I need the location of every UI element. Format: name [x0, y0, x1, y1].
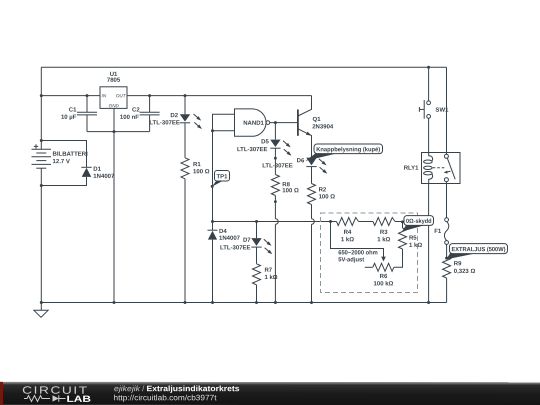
svg-text:0Ω-skydd: 0Ω-skydd [406, 219, 432, 225]
potentiometer R6 100k body [365, 266, 373, 268]
svg-text:R8: R8 [282, 182, 290, 188]
diode D2 LTL-307EE [184, 96, 186, 115]
svg-text:100 kΩ: 100 kΩ [374, 281, 394, 287]
wire R5 to R6 right end [394, 249, 403, 267]
diode D1 1N4007 [81, 166, 91, 168]
svg-text:100 Ω: 100 Ω [319, 194, 336, 200]
wire ground rail [41, 302, 446, 304]
svg-text:BILBATTERI: BILBATTERI [53, 152, 89, 158]
wire top +12V rail [41, 66, 446, 68]
svg-text:LAB: LAB [66, 394, 91, 404]
svg-text:1N4007: 1N4007 [219, 236, 241, 242]
transistor Q1 2N3904 [297, 110, 299, 136]
LED arrows D5 [283, 141, 287, 145]
wire relay contact to fuse [446, 182, 448, 218]
svg-text:100 Ω: 100 Ω [193, 169, 210, 175]
svg-text:OUT: OUT [116, 93, 127, 98]
svg-text:TP1: TP1 [217, 174, 229, 180]
wire R2 to ground with hop [311, 205, 313, 219]
svg-text:GND: GND [109, 103, 120, 108]
svg-text:IN: IN [102, 93, 107, 98]
wire fuse to R9 [446, 244, 448, 257]
relay RLY1 linkage dashed [433, 167, 446, 169]
diode D7 LTL-307EE [256, 222, 258, 239]
LED arrows D2 [194, 114, 198, 118]
switch SW1 [428, 67, 430, 101]
relay RLY1 contact [444, 154, 448, 158]
battery BILBATTERI plus sign [34, 145, 38, 147]
regulator U1 7805 [100, 87, 127, 109]
svg-text:5V-adjust: 5V-adjust [338, 257, 364, 263]
svg-text:100 Ω: 100 Ω [282, 188, 299, 194]
svg-text:1 kΩ: 1 kΩ [264, 275, 277, 281]
banner bar [0, 382, 540, 405]
diode D6 LTL-307EE [306, 158, 316, 166]
node battery bottom D1 junction [40, 184, 43, 187]
diode D4 1N4007 [212, 222, 214, 231]
svg-text:R5: R5 [409, 236, 417, 242]
svg-text:LTL-307EE: LTL-307EE [262, 163, 293, 169]
LED arrows D6 [319, 159, 323, 163]
relay RLY1 coil [429, 153, 433, 161]
resistor R3 1k [359, 221, 374, 223]
battery BILBATTERI plates [32, 148, 52, 150]
callout Knappbelysning [305, 144, 382, 161]
svg-text:0,323 Ω: 0,323 Ω [454, 269, 476, 275]
svg-text:R9: R9 [454, 261, 462, 267]
svg-text:1 kΩ: 1 kΩ [341, 237, 354, 243]
node C1 rail junction [86, 94, 89, 97]
wire 12V to U1 IN [41, 95, 100, 97]
wire R8 to ground with hop [274, 202, 276, 219]
svg-text:LTL-307EE: LTL-307EE [220, 245, 251, 251]
node U1 GND junction [113, 130, 116, 133]
resistor R4 1k [331, 221, 337, 223]
svg-text:7805: 7805 [107, 78, 121, 84]
wire D1 anode to battery minus [41, 177, 86, 186]
logo doodle [24, 395, 66, 401]
node battery top D1 junction [40, 139, 43, 142]
wire U1 OUT 5V rail [127, 95, 312, 97]
wire U1 GND down [113, 108, 115, 302]
LED arrows D7 [264, 239, 268, 243]
fuse F1 [445, 218, 449, 222]
relay RLY1 box [422, 153, 461, 184]
svg-text:R3: R3 [380, 230, 388, 236]
resistor R5 1k [402, 222, 404, 229]
diode D5 LTL-307EE [274, 123, 276, 140]
svg-text:F1: F1 [434, 229, 442, 235]
svg-text:Knappbelysning (kupé): Knappbelysning (kupé) [316, 147, 380, 153]
svg-text:NAND1: NAND1 [243, 121, 264, 127]
svg-text:EXTRALJUS (500W): EXTRALJUS (500W) [451, 247, 505, 253]
svg-text:RLY1: RLY1 [404, 166, 419, 172]
svg-text:D6: D6 [297, 158, 305, 164]
resistor R7 1k [256, 247, 258, 264]
node C2 rail junction [148, 94, 151, 97]
resistor R1 100 [181, 158, 189, 179]
wire NAND output to Q1 base [270, 122, 298, 124]
capacitor C1 [86, 96, 88, 113]
svg-text:D2: D2 [170, 113, 178, 119]
callout EXTRALJUS [445, 244, 507, 260]
capacitor C2 [149, 96, 151, 113]
wire NAND inputs tied [213, 114, 236, 221]
callout TP1 [211, 170, 230, 187]
svg-text:http://circuitlab.com/cb3977t: http://circuitlab.com/cb3977t [113, 393, 217, 402]
svg-text:R2: R2 [319, 187, 327, 193]
wire left vertical battery rail [40, 67, 42, 149]
svg-text:D5: D5 [261, 139, 269, 145]
svg-text:650~2000 ohm: 650~2000 ohm [338, 250, 378, 256]
svg-text:1N4007: 1N4007 [93, 174, 115, 180]
box dashed adjustment region [321, 213, 418, 293]
ground symbol [40, 301, 43, 304]
resistor R8 100 [274, 158, 276, 174]
svg-text:1 kΩ: 1 kΩ [409, 243, 422, 249]
potentiometer R6 wiper [331, 222, 384, 258]
svg-text:D4: D4 [219, 229, 227, 235]
resistor R2 100 [311, 167, 313, 184]
wire sense node horizontal [213, 221, 331, 223]
svg-text:2N3904: 2N3904 [312, 124, 334, 130]
svg-text:10 µF: 10 µF [61, 115, 77, 121]
svg-text:LTL-307EE: LTL-307EE [149, 120, 180, 126]
wire battery plus to D1 [41, 141, 86, 168]
svg-text:100 nF: 100 nF [120, 115, 139, 121]
svg-text:D7: D7 [243, 238, 251, 244]
svg-text:R7: R7 [264, 268, 272, 274]
svg-text:SW1: SW1 [435, 108, 449, 114]
svg-text:C2: C2 [132, 108, 140, 114]
wire C1-C2 ground link [87, 131, 150, 133]
wire rail to relay contact [446, 67, 448, 154]
node U1 IN rail junction [40, 94, 43, 97]
wire relay coil to ground [428, 184, 430, 303]
svg-text:R6: R6 [380, 274, 388, 280]
svg-text:C1: C1 [69, 107, 77, 113]
callout 0ohm skydd [401, 216, 434, 232]
svg-text:1 kΩ: 1 kΩ [377, 237, 390, 243]
svg-text:12.7 V: 12.7 V [53, 159, 70, 165]
svg-text:ejikejik / Extraljusindikatork: ejikejik / Extraljusindikatorkrets [114, 384, 240, 393]
svg-text:D1: D1 [93, 167, 101, 173]
svg-text:R4: R4 [344, 230, 352, 236]
resistor R9 0.323 [443, 257, 451, 278]
gate NAND1 [235, 109, 267, 136]
svg-text:R1: R1 [193, 162, 201, 168]
svg-text:Q1: Q1 [313, 117, 322, 123]
svg-text:LTL-307EE: LTL-307EE [237, 147, 268, 153]
